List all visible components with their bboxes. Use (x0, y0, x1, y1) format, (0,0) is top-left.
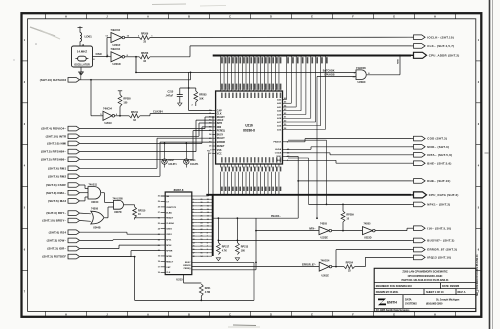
svg-text:20: 20 (201, 236, 203, 238)
svg-text:U201D: U201D (113, 62, 121, 66)
wire U207D out / resistor RP210 (124, 204, 135, 206)
node ERROR87 branch (335, 266, 337, 268)
wire U244B out to U207D (105, 217, 109, 219)
flag DMA (68, 190, 80, 195)
svg-text:(SHT.3) IOW~: (SHT.3) IOW~ (47, 239, 67, 243)
svg-text:10: 10 (207, 226, 209, 228)
svg-text:22: 22 (158, 239, 160, 241)
svg-text:PEACK: PEACK (274, 141, 282, 144)
flag INTR (68, 134, 80, 139)
svg-text:PEREQ: PEREQ (217, 131, 225, 133)
flag CSOF (68, 183, 80, 188)
svg-text:18: 18 (207, 199, 209, 201)
svg-text:7: 7 (207, 236, 208, 238)
svg-text:74S08: 74S08 (91, 208, 99, 211)
svg-text:RP213: RP213 (241, 246, 249, 249)
svg-text:RP205: RP205 (123, 98, 131, 101)
svg-text:OSCILLATOR: OSCILLATOR (74, 63, 90, 66)
svg-text:74S05: 74S05 (320, 222, 328, 225)
svg-text:INTR: INTR (217, 123, 223, 125)
svg-text:BUSY87~ (SHT.3): BUSY87~ (SHT.3) (427, 239, 454, 243)
svg-text:74HC04: 74HC04 (111, 28, 121, 32)
svg-text:G: G (393, 16, 395, 19)
wire LD01 to osc (79, 42, 81, 47)
svg-text:U204C: U204C (91, 201, 99, 204)
svg-text:CLK: CLK (217, 114, 222, 116)
svg-text:D201: D201 (190, 160, 196, 162)
border frame inner (28, 19, 476, 312)
svg-text:15: 15 (193, 246, 195, 248)
svg-text:19: 19 (201, 239, 203, 241)
wire INTA row (286, 152, 330, 154)
svg-text:Z200 LAN CPU/MEMORY SCHEMATIC: Z200 LAN CPU/MEMORY SCHEMATIC (402, 270, 447, 274)
svg-text:CLK284: CLK284 (166, 222, 174, 225)
svg-text:6: 6 (207, 239, 208, 241)
svg-text:READY: READY (166, 217, 174, 220)
node DATAIO2 tap for U201C (90, 79, 92, 81)
svg-text:DRAWN BY: R.M.W.: DRAWN BY: R.M.W. (376, 290, 399, 294)
svg-text:25: 25 (158, 223, 160, 225)
svg-text:D: D (270, 16, 272, 19)
wire ERROR87 from U215 (192, 266, 319, 268)
svg-text:30: 30 (201, 202, 203, 204)
resistor RP205 150 pullup (119, 115, 121, 117)
svg-text:4: 4 (207, 245, 208, 248)
svg-text:PART NO. 181-6116-00 FCO FS 8: PART NO. 181-6116-00 FCO FS 85-0292-01 (402, 278, 450, 282)
svg-text:LD01: LD01 (85, 35, 93, 39)
bus CPU_DATA (206, 194, 411, 196)
svg-text:REV: A: REV: A (458, 290, 466, 294)
scan page right edge shadow (489, 0, 491, 329)
svg-text:14.MHZ: 14.MHZ (77, 50, 88, 54)
svg-text:PEREQ: PEREQ (184, 268, 191, 270)
title block copyright row (374, 307, 476, 309)
supply arrow near DATAIO2 (80, 75, 82, 80)
small dash mark right margin (485, 152, 489, 154)
svg-text:CPUHOB: CPUHOB (324, 73, 335, 76)
svg-text:NKB: NKB (398, 59, 400, 64)
svg-text:CODA: CODA (275, 152, 282, 155)
svg-text:21: 21 (201, 232, 203, 234)
bus vertical drops to U216 top pins (219, 56, 221, 88)
svg-text:28: 28 (158, 207, 160, 209)
svg-text:(SHT.5) RFSH86~: (SHT.5) RFSH86~ (41, 157, 66, 161)
resistor RP206 33 (top) (139, 36, 150, 40)
wire PEACK (213, 217, 299, 219)
svg-text:23: 23 (201, 226, 203, 228)
svg-text:17: 17 (201, 246, 203, 248)
svg-text:80287-8: 80287-8 (174, 188, 184, 192)
flag M/IO (414, 145, 426, 150)
svg-text:(SHT.6) RM1: (SHT.6) RM1 (48, 166, 66, 170)
svg-text:RP206: RP206 (141, 52, 149, 55)
flag NMI (68, 141, 80, 146)
svg-text:12: 12 (193, 236, 195, 238)
wire NPX vertical from U216 (288, 157, 309, 159)
svg-text:U223E: U223E (321, 236, 329, 239)
svg-text:B: B (188, 314, 190, 317)
wire ERROR route to U215 (208, 153, 210, 197)
wire ground loop lower left (134, 256, 136, 258)
svg-text:ERROR_87~: ERROR_87~ (302, 264, 317, 267)
U215 right pins data (192, 198, 198, 200)
svg-text:NPS1: NPS1 (166, 240, 172, 242)
svg-text:17: 17 (207, 202, 209, 204)
svg-text:REACT: REACT (166, 260, 174, 263)
svg-text:COD (SHT.3): COD (SHT.3) (427, 137, 447, 141)
wire BUSY87 row (218, 239, 411, 241)
flag MA2 (68, 199, 80, 204)
node BATCHOK tap (135, 56, 137, 58)
svg-text:.047uF: .047uF (166, 94, 174, 97)
wire READY vertical to CPU (212, 117, 214, 194)
svg-text:CLK~ (SHT.4,5,7): CLK~ (SHT.4,5,7) (427, 44, 454, 48)
svg-text:CAP: CAP (217, 110, 222, 113)
flag INTA (414, 153, 426, 158)
svg-text:RP204: RP204 (346, 262, 354, 265)
title block engineer row (374, 282, 476, 284)
svg-text:(SHT.6) RM2: (SHT.6) RM2 (48, 174, 66, 178)
flag IOW (68, 238, 80, 243)
svg-text:U201C: U201C (105, 122, 113, 125)
svg-text:11: 11 (193, 232, 195, 234)
svg-text:CAP: CAP (166, 266, 171, 269)
svg-text:U201E: U201E (322, 274, 330, 277)
wire BUSY vertical from U216 (288, 139, 327, 141)
wire osc output (93, 56, 108, 58)
svg-text:30: 30 (158, 196, 160, 198)
wire PEREQ down leg (255, 218, 257, 270)
flag BRDY (68, 218, 80, 223)
staircase A-lines from U216 right to bus (283, 99, 287, 101)
wire I16 row (256, 230, 319, 232)
svg-text:NPWR: NPWR (166, 250, 173, 252)
svg-text:H: H (65, 314, 67, 317)
flag RSTDEF (68, 254, 80, 259)
svg-text:NMI: NMI (217, 127, 222, 129)
svg-text:READY: READY (217, 116, 226, 119)
svg-text:10K: 10K (199, 97, 204, 100)
wire NPX1 (309, 203, 412, 205)
svg-text:29: 29 (201, 206, 203, 208)
svg-text:22: 22 (201, 229, 203, 231)
node osc split (106, 56, 108, 58)
wire DHE row (286, 155, 298, 157)
svg-text:BUSY: BUSY (217, 135, 224, 137)
flag ERROR87 (414, 247, 426, 252)
svg-text:14: 14 (193, 241, 195, 244)
svg-text:RP217: RP217 (222, 246, 230, 249)
svg-text:(SHT.3) DMA~: (SHT.3) DMA~ (46, 191, 67, 195)
svg-text:2: 2 (193, 202, 194, 204)
svg-text:13: 13 (193, 239, 195, 241)
resistor RP206 33 (lower) (139, 55, 150, 59)
svg-text:CPU_DATA (SHT.2): CPU_DATA (SHT.2) (429, 193, 459, 197)
svg-text:DATA: DATA (405, 297, 412, 301)
svg-text:ENGINEER: R.W. KOENZELSKI: ENGINEER: R.W. KOENZELSKI (376, 284, 412, 288)
svg-text:U201F: U201F (113, 43, 121, 47)
svg-text:DATE: 06/02/86: DATE: 06/02/86 (442, 284, 460, 288)
svg-text:CMD1: CMD1 (166, 234, 173, 236)
title block drawn row (374, 288, 476, 290)
wire CPUHOB (316, 76, 318, 218)
osc ground stub (80, 67, 82, 72)
U216 left pins (212, 110, 215, 112)
svg-text:U209C: U209C (358, 80, 366, 84)
svg-text:HLDA: HLDA (275, 148, 281, 151)
flag CPU_DATA (414, 192, 427, 198)
flag I16 (414, 226, 426, 231)
svg-text:134-871: 134-871 (168, 163, 177, 166)
svg-text:26: 26 (201, 216, 203, 218)
svg-text:31: 31 (201, 199, 203, 201)
diode D201 (185, 143, 187, 145)
wire U201C out (115, 115, 130, 117)
svg-text:(SHT.3) IOR~: (SHT.3) IOR~ (47, 247, 66, 251)
svg-text:25: 25 (201, 219, 203, 221)
svg-text:D202: D202 (168, 160, 174, 162)
svg-text:(SHT.4) RDVIO4~: (SHT.4) RDVIO4~ (41, 127, 66, 131)
wire IRQ13 (355, 266, 366, 268)
svg-text:U207D: U207D (114, 211, 122, 214)
resistor R201 (183, 275, 185, 283)
U215 left pins (161, 195, 166, 197)
svg-text:U244B: U244B (93, 227, 101, 230)
svg-text:IRQ13 (SHT.10): IRQ13 (SHT.10) (427, 256, 451, 260)
svg-text:CPU/COPROCESSOR LOGIC: CPU/COPROCESSOR LOGIC (408, 274, 443, 278)
U216 lower right pins (283, 141, 287, 143)
bus CPU_ADDR (213, 55, 411, 57)
svg-text:80286-8: 80286-8 (243, 129, 255, 133)
scan marks top margin (152, 3, 186, 6)
svg-text:20: 20 (158, 250, 160, 252)
svg-text:(616) 982-3200: (616) 982-3200 (426, 302, 443, 306)
wire BHE row (286, 159, 336, 161)
flag RFSH84 (68, 149, 80, 154)
svg-text:A: A (147, 16, 149, 19)
svg-text:9: 9 (193, 226, 194, 228)
svg-text:R201: R201 (205, 287, 211, 290)
svg-text:(C) 1985 Zenith Data Systems: (C) 1985 Zenith Data Systems (376, 308, 410, 312)
supply tick above LD01 (78, 27, 83, 29)
svg-text:OSC: OSC (96, 52, 103, 56)
U216 bottom pins (219, 164, 221, 167)
svg-text:RP209: RP209 (346, 214, 354, 217)
svg-text:BHE~ (SHT.5,6): BHE~ (SHT.5,6) (427, 161, 451, 165)
svg-text:ERROR: ERROR (183, 265, 191, 267)
svg-text:17: 17 (158, 267, 160, 269)
svg-text:4.7K: 4.7K (222, 249, 227, 252)
flag RM1 (68, 166, 80, 171)
flag IOCLK (414, 35, 426, 40)
svg-text:4: 4 (193, 208, 194, 211)
flag RFSH86 (68, 157, 80, 162)
svg-text:(SHT.5) RFSH84~: (SHT.5) RFSH84~ (41, 150, 66, 154)
wire BATCHOK from U201D branch (135, 72, 137, 74)
flag BHE (414, 161, 426, 166)
svg-text:(SHT.10) INTR: (SHT.10) INTR (46, 134, 67, 138)
svg-text:(SHT.3) CSOF: (SHT.3) CSOF (46, 183, 66, 187)
Zenith logo (378, 299, 386, 306)
flag RDY (68, 211, 80, 216)
svg-text:28: 28 (201, 209, 203, 211)
U216 inside pin names top/bottom (221, 93, 223, 98)
svg-text:C: C (229, 16, 231, 19)
svg-text:U223D: U223D (364, 236, 372, 239)
wire CAP pin (188, 88, 190, 111)
crystal capsule symbol (78, 56, 87, 61)
svg-text:7: 7 (193, 219, 194, 221)
wire U209C out to bus (367, 74, 400, 76)
svg-text:(SHT.6) MA2: (SHT.6) MA2 (48, 199, 66, 203)
svg-text:16: 16 (201, 249, 203, 251)
svg-text:1: 1 (193, 199, 194, 201)
svg-text:ERROR: ERROR (217, 142, 226, 144)
svg-text:CPU_ADDR (SHT.2): CPU_ADDR (SHT.2) (429, 53, 460, 57)
svg-text:15: 15 (207, 209, 209, 211)
svg-text:U216: U216 (245, 124, 253, 128)
wire U204C out (101, 192, 104, 194)
svg-text:(SHT.3) RDY~: (SHT.3) RDY~ (46, 211, 66, 215)
svg-text:10: 10 (193, 229, 195, 231)
resistor RP204 33 (344, 265, 355, 269)
svg-text:H: H (434, 314, 436, 317)
svg-text:ENITH: ENITH (387, 301, 397, 305)
svg-text:(SHT.6) RS4: (SHT.6) RS4 (49, 230, 67, 234)
wire COD row (286, 141, 305, 143)
svg-text:18: 18 (201, 242, 203, 244)
flag RDVIO4 (68, 126, 80, 131)
svg-text:5: 5 (193, 212, 194, 214)
resistor RP217 (218, 217, 220, 219)
svg-text:74ALS08: 74ALS08 (113, 197, 124, 200)
svg-text:150: 150 (123, 101, 128, 104)
title block logo row (374, 294, 476, 296)
wire U201F out (125, 37, 140, 39)
svg-text:NPX1~ (SHT.2): NPX1~ (SHT.2) (427, 203, 450, 207)
svg-text:(SHT.10) NMI: (SHT.10) NMI (47, 142, 66, 146)
svg-text:14: 14 (201, 255, 203, 258)
svg-text:M/IO~ (SHT.3): M/IO~ (SHT.3) (427, 145, 449, 149)
svg-text:VCC: VCC (217, 154, 222, 156)
resistor RP211 33 (129, 114, 140, 118)
svg-text:SYSTEMS: SYSTEMS (405, 302, 417, 306)
svg-text:11: 11 (207, 222, 209, 224)
svg-text:I16~ (SHT.5,10): I16~ (SHT.5,10) (427, 226, 451, 230)
svg-text:St. Joseph Michigan: St. Joseph Michigan (436, 297, 460, 301)
svg-text:16: 16 (193, 249, 195, 251)
svg-text:17: 17 (193, 252, 195, 254)
svg-text:27: 27 (158, 212, 160, 214)
svg-text:H: H (434, 16, 436, 19)
wire DATAIO2 (80, 79, 191, 81)
svg-text:18: 18 (158, 261, 160, 263)
svg-text:ERROR_87 (SHT.3): ERROR_87 (SHT.3) (427, 248, 457, 252)
wire CLK row (150, 56, 190, 58)
svg-text:74S05: 74S05 (364, 222, 372, 225)
svg-text:DHE~ (SHT.10): DHE~ (SHT.10) (427, 179, 450, 183)
svg-text:RESET: RESET (217, 146, 225, 148)
svg-text:BUSY: BUSY (185, 262, 191, 264)
flag NPX1 (414, 202, 426, 207)
svg-text:B: B (188, 16, 190, 19)
oscillator module Y201 (72, 46, 93, 67)
svg-text:2: 2 (207, 252, 208, 254)
wire PEREQ stub (192, 269, 256, 271)
svg-text:RP210: RP210 (138, 209, 146, 212)
svg-text:(SHT.3) RSTDEF: (SHT.3) RSTDEF (42, 255, 66, 259)
svg-text:8: 8 (207, 232, 208, 234)
diode D202 (164, 143, 166, 145)
svg-text:SHEET 1 OF 10: SHEET 1 OF 10 (426, 290, 444, 294)
wire M/IO row (286, 148, 311, 150)
svg-text:VSS: VSS (217, 150, 222, 152)
svg-text:3: 3 (193, 206, 194, 208)
svg-text:8: 8 (193, 222, 194, 224)
flag IRQ13 (414, 255, 426, 260)
inductor LD01 (79, 29, 81, 33)
wire U201D out (125, 56, 140, 58)
svg-text:19: 19 (158, 256, 160, 258)
svg-text:CMD0: CMD0 (166, 229, 173, 231)
svg-text:74HC04: 74HC04 (103, 108, 112, 111)
svg-text:CKB/TST2: CKB/TST2 (166, 207, 177, 209)
flag BUSY87 (414, 238, 426, 243)
svg-text:13: 13 (207, 216, 209, 218)
svg-text:74HC04: 74HC04 (111, 47, 121, 51)
svg-text:RP203: RP203 (199, 94, 207, 97)
svg-text:RP206: RP206 (141, 33, 149, 36)
svg-text:26: 26 (158, 218, 160, 220)
title block (374, 268, 476, 311)
bus data collector vertical (212, 195, 214, 256)
svg-text:NPX~: NPX~ (309, 227, 316, 230)
wire IOCLK row (150, 36, 411, 38)
svg-text:6: 6 (193, 216, 194, 218)
wire BUSY loop (192, 261, 254, 263)
flag RM2 (68, 174, 80, 179)
svg-text:CLK: CLK (166, 272, 171, 274)
svg-text:RP211: RP211 (131, 111, 139, 114)
flag CPU_ADDR (414, 52, 427, 58)
svg-text:180: 180 (241, 249, 246, 252)
svg-text:15: 15 (201, 252, 203, 254)
resistor RP209 pull (341, 211, 345, 222)
svg-text:BATCHOK: BATCHOK (323, 69, 335, 72)
wire READY net (135, 217, 161, 219)
svg-text:12: 12 (207, 219, 209, 221)
svg-text:U215: U215 (176, 277, 183, 281)
svg-text:D: D (270, 314, 272, 317)
resistor RP213 (237, 217, 239, 219)
svg-text:14: 14 (207, 211, 209, 214)
svg-text:18: 18 (193, 256, 195, 258)
svg-text:INTA~ (SHT.5,6): INTA~ (SHT.5,6) (427, 153, 452, 157)
svg-text:H: H (65, 16, 67, 19)
svg-text:3: 3 (207, 249, 208, 251)
svg-text:C: C (229, 314, 231, 317)
svg-text:29: 29 (158, 201, 160, 203)
flag DHE (414, 179, 426, 184)
svg-text:NPRD: NPRD (166, 256, 172, 258)
svg-text:9: 9 (207, 229, 208, 231)
svg-text:NPS2: NPS2 (166, 245, 172, 247)
svg-text:74AS11: 74AS11 (89, 183, 98, 186)
svg-text:CLK284: CLK284 (153, 110, 163, 114)
flag DATAIO2 (68, 78, 80, 83)
flag IOR (68, 246, 80, 251)
svg-text:(SHT.10) DATAIO2: (SHT.10) DATAIO2 (40, 78, 67, 82)
